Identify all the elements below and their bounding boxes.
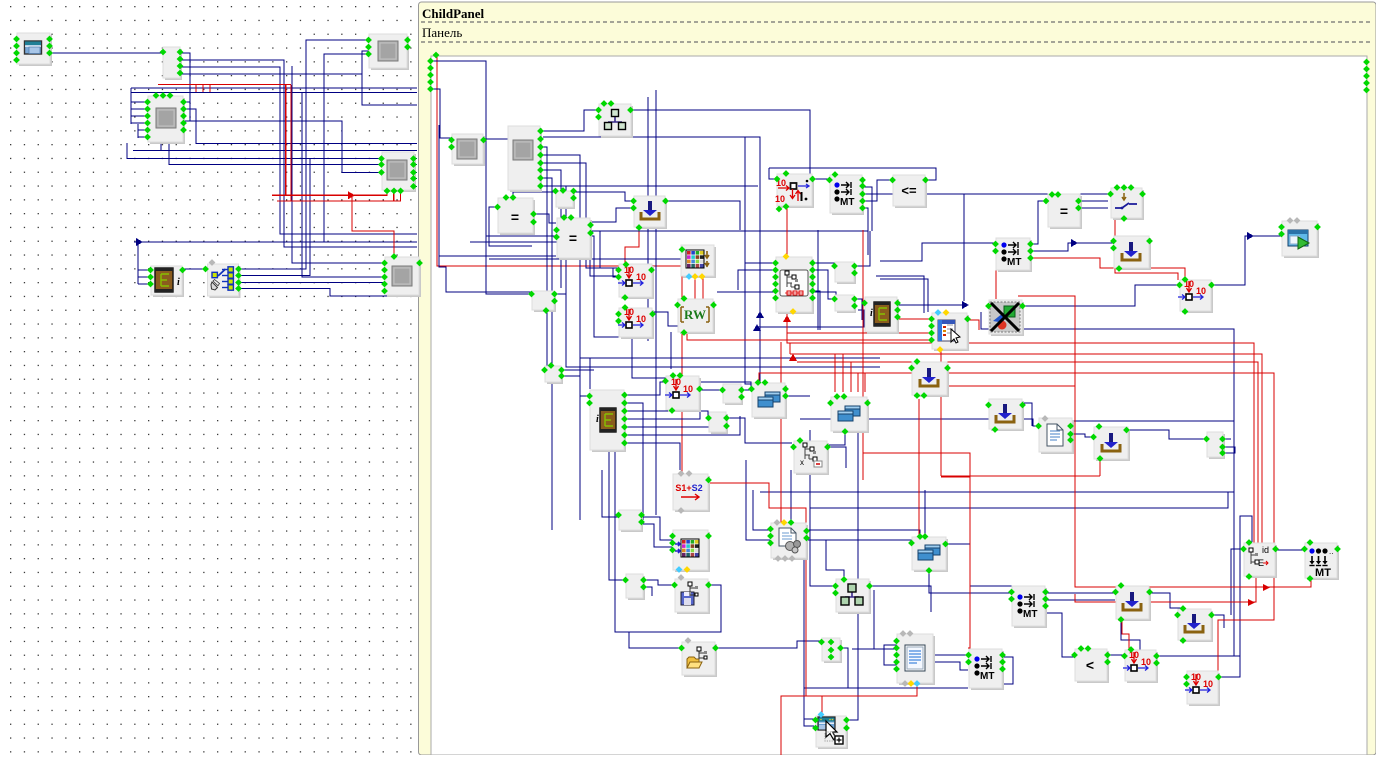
wire	[746, 460, 770, 540]
wire	[655, 90, 657, 515]
block foldertree R49	[682, 642, 717, 677]
wire red	[682, 271, 689, 276]
wire	[177, 60, 417, 105]
wire red	[625, 227, 639, 266]
wire	[138, 129, 150, 131]
wire	[855, 231, 870, 266]
wire red	[941, 476, 970, 478]
wire red	[1115, 219, 1178, 280]
svg-text:Панель: Панель	[422, 25, 462, 40]
wire	[292, 66, 387, 263]
block panel R0a	[452, 134, 485, 166]
block move R15	[619, 264, 654, 299]
wire	[670, 332, 672, 369]
svg-text:x: x	[800, 458, 804, 467]
wire	[862, 187, 872, 231]
wire	[760, 421, 1234, 492]
wire	[239, 289, 387, 297]
wire	[588, 231, 618, 268]
wire	[647, 97, 649, 341]
wire	[489, 207, 532, 246]
wire	[1078, 200, 1108, 202]
wire red	[158, 84, 291, 86]
wire red	[759, 373, 1274, 684]
wire	[486, 236, 668, 378]
wire	[566, 240, 618, 276]
svg-text:<: <	[1086, 657, 1094, 673]
wire red	[789, 343, 791, 354]
wire	[561, 375, 580, 377]
block wincur R44	[816, 716, 848, 749]
wire	[804, 718, 814, 720]
wire red	[863, 318, 932, 320]
wire	[981, 312, 1234, 447]
wire	[800, 419, 1039, 426]
block connector R38	[1207, 432, 1225, 459]
wire	[757, 310, 864, 327]
wire	[665, 201, 740, 230]
block playwin R12	[1282, 221, 1319, 258]
wire red	[797, 362, 1258, 548]
wire	[792, 432, 845, 445]
wire	[1043, 613, 1074, 657]
block MT R30	[996, 238, 1032, 272]
wire red	[1075, 577, 1256, 602]
wire	[809, 168, 811, 178]
wire	[1222, 447, 1235, 453]
svg-text:10: 10	[1203, 679, 1213, 689]
block winstack R40	[912, 537, 948, 572]
wire	[413, 185, 417, 187]
block colorgrid R14	[681, 245, 716, 278]
wire arrow	[783, 315, 791, 322]
wire	[239, 282, 387, 284]
wire	[725, 418, 792, 443]
wire	[1222, 438, 1231, 440]
wire	[137, 124, 139, 138]
wire	[183, 109, 417, 144]
svg-text:RW: RW	[684, 307, 706, 322]
wire	[1030, 243, 1117, 251]
wire	[131, 108, 150, 110]
block less R53	[1075, 649, 1109, 683]
block download R34	[912, 362, 949, 397]
wire	[543, 155, 580, 520]
wire	[430, 89, 451, 138]
wire	[602, 470, 619, 517]
wire	[543, 110, 598, 131]
wire	[1212, 615, 1224, 628]
wire	[413, 164, 417, 166]
wire red	[437, 55, 682, 266]
wire	[580, 395, 589, 397]
wire	[239, 40, 369, 269]
wire red	[790, 354, 1262, 577]
wire red	[780, 342, 782, 523]
block move R16	[619, 308, 654, 339]
wire	[624, 416, 740, 435]
wire	[531, 214, 556, 223]
wire	[470, 241, 579, 243]
block docgear R41	[771, 523, 808, 560]
block connector R24	[723, 384, 743, 405]
wire	[131, 101, 150, 103]
wire red	[1030, 258, 1185, 279]
wire	[543, 170, 561, 288]
wire	[884, 645, 898, 665]
wire	[324, 54, 368, 242]
wire	[738, 270, 776, 290]
block crossx R32	[989, 300, 1024, 336]
svg-text:MT: MT	[840, 197, 854, 208]
svg-text:MT: MT	[980, 671, 994, 682]
wire red	[850, 362, 852, 392]
block RW R17	[678, 299, 715, 334]
wire red	[352, 195, 394, 256]
wire	[629, 632, 681, 648]
wire	[745, 137, 752, 384]
wire	[489, 258, 700, 260]
wire	[1148, 593, 1183, 608]
wire arrow	[756, 311, 764, 318]
wire	[806, 530, 920, 536]
wire red	[781, 684, 917, 755]
wire arrow	[136, 238, 143, 246]
wire	[613, 268, 618, 277]
wire	[138, 283, 150, 285]
wire	[745, 262, 776, 264]
block trigger R10	[1111, 188, 1144, 220]
wire	[1023, 285, 1179, 306]
svg-text:MT: MT	[1315, 567, 1331, 579]
block s1s2 R29	[673, 474, 710, 512]
wire	[855, 299, 862, 320]
block MT R52	[969, 649, 1004, 690]
block archive R27	[865, 297, 899, 334]
block lessequal R8	[893, 175, 927, 208]
wire red	[967, 320, 979, 330]
wire	[1071, 434, 1094, 437]
wire	[769, 168, 936, 180]
svg-text:=: =	[1060, 203, 1068, 219]
wire	[543, 185, 758, 187]
block connector R20	[545, 366, 563, 384]
wire	[1126, 430, 1207, 439]
wire arrow	[1071, 239, 1078, 247]
wire red	[941, 475, 1100, 477]
wire	[637, 517, 672, 540]
wire	[826, 540, 844, 580]
wire	[880, 279, 928, 312]
block move R6	[777, 174, 814, 208]
wire red	[687, 332, 941, 476]
block MT R7	[830, 175, 864, 215]
wire	[624, 382, 668, 395]
wire	[580, 357, 880, 359]
wire	[624, 403, 643, 520]
wire	[589, 358, 591, 389]
block orgchart R1	[599, 104, 633, 138]
block connector R25b	[835, 295, 856, 313]
wire	[190, 121, 381, 172]
wire red	[918, 399, 920, 537]
wire	[133, 150, 417, 152]
wire	[806, 540, 913, 544]
wire	[852, 648, 874, 650]
block move R13	[1180, 280, 1213, 313]
wire red	[1122, 619, 1129, 649]
wire	[862, 208, 868, 255]
wire	[1022, 403, 1032, 426]
wire	[439, 125, 532, 292]
wire	[932, 654, 968, 656]
wire	[302, 93, 387, 278]
wire	[543, 163, 618, 268]
wire red	[681, 266, 683, 474]
wire	[543, 147, 547, 366]
block download R37	[1094, 427, 1130, 461]
wire	[812, 291, 820, 330]
svg-text:i: i	[596, 414, 599, 425]
block download R56	[1116, 586, 1151, 621]
svg-text:i: i	[870, 308, 873, 319]
wire	[874, 590, 898, 649]
block MT R50	[1012, 586, 1047, 628]
wire red	[862, 230, 864, 480]
wire	[840, 648, 848, 688]
svg-text:10: 10	[636, 272, 646, 282]
wire	[1043, 599, 1115, 601]
wire	[413, 158, 417, 160]
wire	[1078, 207, 1108, 209]
block connector R43	[822, 638, 842, 663]
svg-text:10: 10	[775, 194, 785, 204]
wire	[1240, 516, 1252, 656]
wire	[483, 138, 508, 140]
wire	[880, 243, 996, 261]
block tablecur R33	[932, 313, 969, 351]
wire	[715, 641, 821, 648]
wire	[160, 141, 162, 151]
wire	[1043, 592, 1115, 594]
block panel R0b	[508, 126, 542, 192]
wire	[1107, 654, 1125, 656]
wire	[929, 570, 1012, 593]
wire arrow	[1247, 232, 1254, 240]
wire	[1003, 657, 1013, 684]
wire	[566, 186, 880, 367]
wire	[588, 208, 633, 222]
wire	[138, 136, 150, 138]
block connector R25a	[835, 262, 856, 284]
wire	[810, 430, 836, 586]
wire	[717, 292, 836, 299]
block panel L5	[382, 152, 416, 192]
wire red	[202, 85, 204, 92]
block seqtree R18	[776, 257, 814, 314]
block colorgrid R45	[673, 530, 710, 572]
wire	[624, 443, 680, 470]
wire	[130, 88, 132, 124]
wire	[177, 53, 190, 121]
block winstack R26	[831, 397, 869, 433]
wire	[1275, 549, 1304, 551]
wire red	[1018, 296, 1311, 587]
wire arrow	[962, 301, 969, 309]
block connector R4	[556, 191, 575, 209]
panel left edge ports	[433, 52, 440, 59]
block treex R28	[794, 441, 829, 475]
svg-text:=: =	[569, 230, 577, 246]
wire	[827, 447, 846, 468]
svg-text:id: id	[1262, 545, 1269, 555]
wire	[701, 382, 751, 389]
wire arrow	[1248, 599, 1255, 606]
wire	[932, 662, 968, 670]
wire	[624, 411, 708, 418]
wire red	[710, 483, 806, 696]
wire	[643, 587, 652, 596]
wire	[127, 143, 381, 159]
wire	[624, 390, 722, 419]
wire	[362, 51, 369, 74]
wire red	[694, 276, 696, 299]
wire	[50, 52, 164, 54]
block connector R24b	[709, 412, 728, 434]
wire red	[834, 354, 836, 392]
wire	[812, 270, 835, 299]
wire	[239, 159, 310, 276]
wire red	[1099, 458, 1101, 476]
block panel L4	[369, 34, 409, 70]
block doclines R51	[897, 634, 935, 685]
block id R58	[1244, 543, 1277, 578]
wire	[785, 395, 810, 397]
block winstack R23	[752, 383, 787, 419]
block floppytree R48	[675, 579, 710, 614]
block equal R3	[557, 218, 592, 260]
wire	[137, 242, 139, 284]
wire red	[863, 453, 970, 648]
wire	[560, 230, 868, 232]
wire	[131, 92, 417, 94]
block connector R47	[626, 574, 645, 600]
block switch L8	[208, 264, 241, 298]
block panel L3	[148, 96, 185, 144]
wire	[637, 524, 672, 547]
block connector R46	[619, 510, 643, 532]
block connector R19	[532, 291, 556, 312]
svg-text:MT: MT	[1007, 257, 1021, 268]
wire red	[941, 385, 1075, 387]
svg-text:=: =	[511, 209, 519, 225]
svg-text:10: 10	[683, 384, 693, 394]
wire	[630, 110, 810, 168]
wire	[183, 101, 190, 103]
svg-text:<=: <=	[901, 183, 917, 198]
wire	[643, 580, 674, 585]
wire	[131, 115, 150, 117]
wire red	[787, 332, 932, 334]
wire	[812, 262, 835, 264]
wire	[804, 687, 968, 689]
wire red	[195, 85, 197, 92]
svg-text:10: 10	[636, 314, 646, 324]
wire red	[285, 85, 287, 195]
wire	[439, 255, 556, 257]
block download R35	[989, 399, 1024, 431]
wire	[574, 192, 633, 201]
wire	[876, 276, 924, 313]
wire	[1121, 619, 1140, 656]
wire	[768, 168, 770, 178]
wire	[1030, 201, 1046, 244]
block window L1	[17, 33, 52, 66]
block download R11	[1114, 236, 1151, 270]
wire arrow	[1263, 584, 1270, 591]
wire red	[821, 696, 823, 714]
svg-text:10: 10	[1196, 286, 1206, 296]
wire	[134, 241, 417, 243]
wire	[946, 544, 1016, 586]
wire	[138, 276, 150, 278]
wire	[753, 490, 770, 530]
wire	[182, 268, 206, 270]
wire	[858, 309, 865, 311]
wire	[769, 168, 777, 179]
block download R57	[1178, 609, 1213, 642]
block archive L7	[151, 266, 184, 297]
wire	[413, 178, 417, 180]
wire	[177, 74, 417, 247]
wire	[926, 193, 1108, 195]
wire	[615, 451, 721, 632]
wire	[554, 293, 566, 295]
block equal R9	[1048, 194, 1082, 229]
block move R55	[1187, 671, 1220, 706]
wire	[177, 67, 417, 234]
wire	[817, 230, 819, 330]
wire	[924, 490, 926, 537]
wire	[740, 390, 752, 392]
block panel L6	[385, 257, 421, 297]
wire	[513, 192, 556, 198]
svg-text:i: i	[177, 277, 180, 288]
panel right edge ports	[1363, 59, 1370, 66]
wire	[131, 87, 417, 89]
wire	[651, 312, 681, 326]
wire	[862, 180, 893, 201]
wire	[804, 558, 814, 726]
wire red	[277, 191, 401, 202]
block mtdown R59	[1305, 543, 1339, 580]
wire	[869, 586, 931, 612]
wire	[413, 171, 417, 173]
wire red	[857, 373, 859, 392]
wire arrow	[789, 354, 797, 362]
wire	[810, 492, 1228, 508]
wire red	[787, 207, 1254, 543]
svg-text:10: 10	[1141, 657, 1151, 667]
wire	[1211, 236, 1283, 285]
block orgchart R42	[836, 579, 871, 614]
svg-text:..: ..	[1329, 547, 1333, 556]
block move R22	[666, 376, 701, 412]
wire	[790, 470, 792, 522]
block move R54	[1125, 650, 1158, 683]
wire red	[702, 276, 704, 299]
wire	[812, 178, 829, 180]
